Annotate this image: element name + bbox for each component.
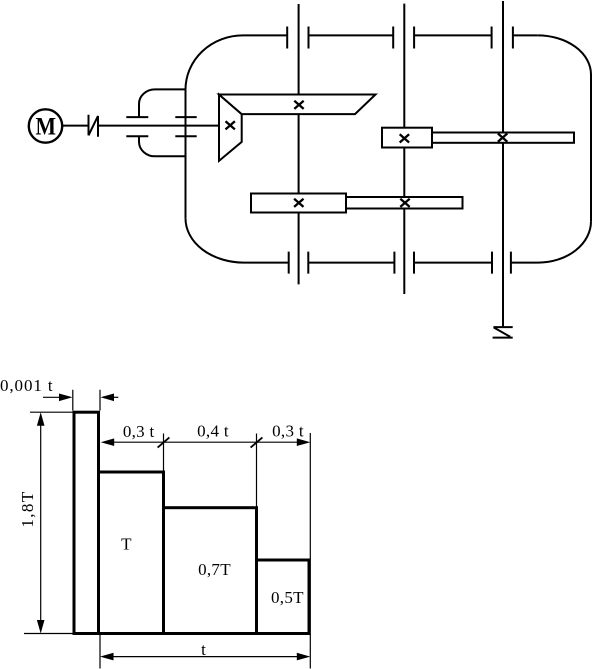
arrow down (1,8T): [37, 620, 45, 634]
shaft I (vertical): [298, 4, 300, 284]
pinion z2 on shaft III (upper mesh): [432, 133, 574, 143]
gearbox housing right wall: [590, 75, 592, 222]
gearbox housing top-right corner: [538, 35, 591, 74]
motor shaft: [62, 125, 88, 127]
x mark on gear z1: [400, 134, 409, 142]
top extension for 1.8T dimension: [30, 411, 74, 413]
bearing (input shaft, outer): [126, 117, 148, 136]
arrow right (t bottom): [297, 653, 311, 661]
svg-text:t: t: [201, 640, 206, 659]
pinion z4 on shaft II (lower mesh): [346, 197, 463, 209]
top dimension line row: [112, 441, 298, 443]
0,001t dimension line left part: [43, 396, 62, 398]
chart labels: [0, 376, 304, 659]
arrow right (0,3t top row right): [297, 438, 311, 446]
gear wheel z3 on shaft I: [251, 194, 346, 213]
gearbox housing bottom-left corner: [186, 218, 245, 262]
arrow left (t bottom): [100, 653, 114, 661]
extension lines above bar 1.8T: [73, 390, 100, 411]
0,001t dimension line right part: [111, 396, 118, 398]
svg-text:0,3 t: 0,3 t: [123, 422, 155, 441]
bottom t dimension line: [112, 656, 298, 658]
arrow right at bar1 left (0,001t): [59, 394, 73, 402]
baseline extension left: [24, 633, 74, 635]
gear wheel z1 on shaft II (upper mesh): [382, 128, 432, 148]
input shaft: [98, 125, 219, 127]
1,8T vertical dimension line: [40, 424, 42, 622]
x mark on gear z3: [294, 199, 303, 207]
arrow left at bar1 right (0,001t): [101, 394, 115, 402]
svg-text:0,4 t: 0,4 t: [197, 421, 229, 440]
bevel wheel: [219, 95, 376, 115]
input shaft bearing housing lobe: [139, 89, 186, 117]
svg-text:0,5T: 0,5T: [271, 588, 304, 607]
elastic coupling (break symbol) on motor shaft: [89, 115, 99, 137]
svg-text:0,7T: 0,7T: [198, 560, 231, 579]
arrow up (1,8T): [37, 412, 45, 426]
bevel pinion: [219, 95, 242, 161]
thin dimension / extension lines: [24, 390, 310, 669]
gearbox housing bottom-right corner: [538, 221, 591, 262]
gearbox housing top-left corner: [186, 35, 244, 89]
gearbox housing bottom line segments: [244, 262, 538, 264]
bar 1.8T: [74, 412, 99, 633]
bearing (shaft III, bottom): [492, 252, 511, 274]
svg-text:M: M: [35, 114, 56, 141]
arrowheads: [37, 394, 310, 661]
x mark on pinion z2: [498, 134, 507, 142]
arrow left (0,3t top row): [101, 438, 115, 446]
bar 0.5T: [257, 560, 310, 634]
gearbox housing top line segments: [243, 34, 538, 36]
slash tick between 0,4t and 0,3t: [251, 437, 263, 447]
motor M: [29, 109, 62, 142]
output shaft break symbol (zigzag): [493, 327, 513, 338]
svg-text:T: T: [121, 534, 132, 553]
bars (thick): [74, 412, 309, 633]
x mark on bevel wheel: [294, 101, 303, 109]
bearing (shaft I, bottom): [289, 252, 309, 274]
bearing (shaft III, top): [492, 27, 513, 49]
gearbox housing left wall: [185, 90, 187, 219]
x mark on pinion z4: [400, 199, 409, 207]
shaft II (vertical): [403, 4, 405, 294]
bar T: [99, 472, 164, 634]
extension line between 0.7T and 0.5T: [256, 434, 258, 508]
bottom extension line at bar T left: [99, 634, 101, 669]
extension line between T and 0.7T: [163, 434, 165, 473]
bearing (shaft II, bottom): [394, 252, 414, 274]
bearing (shaft II, top): [393, 27, 414, 49]
shaft III (output, vertical): [502, 1, 504, 326]
bearing (input shaft, at wall): [175, 117, 196, 136]
right extension line: [309, 433, 311, 669]
svg-text:1,8T: 1,8T: [18, 490, 37, 527]
slash tick between 0,3t and 0,4t: [158, 437, 263, 447]
svg-text:0,3 t: 0,3 t: [272, 421, 304, 440]
bearing (shaft I, top): [287, 27, 308, 49]
x mark on bevel pinion: [226, 101, 508, 207]
svg-text:0,001 t: 0,001 t: [0, 376, 54, 395]
bar 0.7T: [164, 508, 257, 634]
